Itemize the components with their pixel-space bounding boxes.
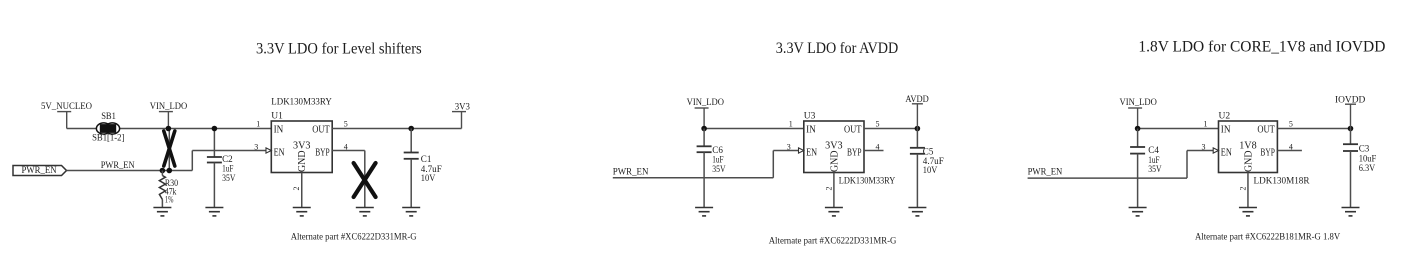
svg-text:SB1: SB1: [101, 112, 116, 122]
svg-text:IN: IN: [806, 124, 816, 135]
svg-text:GND: GND: [297, 150, 308, 172]
svg-text:C5: C5: [923, 147, 934, 157]
svg-text:C2: C2: [222, 154, 233, 164]
svg-text:3V3: 3V3: [825, 139, 843, 151]
svg-text:1.8V LDO for CORE_1V8 and IOVD: 1.8V LDO for CORE_1V8 and IOVDD: [1138, 39, 1385, 56]
svg-text:3: 3: [254, 142, 258, 151]
svg-text:C6: C6: [712, 145, 723, 155]
svg-text:VIN_LDO: VIN_LDO: [687, 97, 724, 108]
svg-text:EN: EN: [274, 148, 285, 159]
svg-text:1: 1: [256, 120, 260, 129]
svg-text:PWR_EN: PWR_EN: [613, 167, 649, 178]
svg-text:35V: 35V: [712, 164, 726, 174]
svg-text:2: 2: [1238, 187, 1247, 191]
svg-text:GND: GND: [829, 150, 840, 172]
svg-text:1: 1: [789, 120, 793, 129]
svg-text:IN: IN: [274, 124, 284, 135]
svg-text:OUT: OUT: [844, 124, 862, 135]
svg-text:OUT: OUT: [1257, 124, 1275, 135]
svg-text:C3: C3: [1359, 144, 1370, 154]
svg-text:BYP: BYP: [847, 147, 862, 158]
svg-text:1V8: 1V8: [1239, 139, 1257, 151]
svg-text:SB1[1-2]: SB1[1-2]: [92, 134, 124, 144]
svg-text:5: 5: [1289, 120, 1293, 129]
svg-text:EN: EN: [806, 148, 817, 159]
svg-text:PWR_EN: PWR_EN: [22, 165, 57, 176]
svg-text:6.3V: 6.3V: [1359, 163, 1376, 173]
svg-text:1%: 1%: [165, 194, 174, 204]
svg-text:C4: C4: [1148, 145, 1159, 155]
svg-text:3.3V LDO for Level shifters: 3.3V LDO for Level shifters: [256, 41, 422, 58]
svg-text:LDK130M33RY: LDK130M33RY: [271, 98, 332, 108]
svg-text:OUT: OUT: [312, 124, 330, 135]
svg-text:1uF: 1uF: [712, 155, 723, 165]
svg-text:BYP: BYP: [1260, 147, 1275, 158]
svg-text:2: 2: [824, 187, 833, 191]
svg-text:U3: U3: [804, 112, 816, 122]
svg-text:U2: U2: [1219, 112, 1231, 122]
svg-text:VIN_LDO: VIN_LDO: [150, 101, 187, 112]
svg-text:BYP: BYP: [315, 147, 330, 158]
svg-text:5V_NUCLEO: 5V_NUCLEO: [41, 101, 92, 112]
svg-text:5: 5: [876, 120, 880, 129]
svg-text:2: 2: [292, 187, 301, 191]
svg-text:Alternate part #XC6222B181MR-G: Alternate part #XC6222B181MR-G 1.8V: [1195, 231, 1341, 241]
svg-text:3: 3: [787, 142, 791, 151]
svg-text:LDK130M33RY: LDK130M33RY: [839, 176, 896, 186]
svg-text:VIN_LDO: VIN_LDO: [1120, 97, 1157, 108]
svg-text:1: 1: [1204, 120, 1208, 129]
svg-text:Alternate part #XC6222D331MR-G: Alternate part #XC6222D331MR-G: [769, 236, 897, 246]
svg-text:5: 5: [344, 120, 348, 129]
svg-text:1uF: 1uF: [222, 164, 233, 174]
svg-text:C1: C1: [421, 154, 432, 164]
svg-text:35V: 35V: [1148, 164, 1162, 174]
svg-text:3.3V LDO for AVDD: 3.3V LDO for AVDD: [776, 40, 899, 57]
svg-text:PWR_EN: PWR_EN: [101, 160, 135, 171]
svg-text:35V: 35V: [222, 173, 236, 183]
svg-text:10V: 10V: [923, 165, 938, 175]
svg-text:3V3: 3V3: [293, 139, 311, 151]
svg-text:Alternate part #XC6222D331MR-G: Alternate part #XC6222D331MR-G: [291, 231, 417, 241]
svg-text:U1: U1: [271, 112, 283, 122]
svg-text:IN: IN: [1221, 124, 1231, 135]
svg-text:GND: GND: [1243, 150, 1254, 172]
svg-text:3: 3: [1202, 142, 1206, 151]
svg-text:LDK130M18R: LDK130M18R: [1254, 176, 1311, 186]
svg-text:PWR_EN: PWR_EN: [1028, 167, 1063, 178]
svg-text:EN: EN: [1221, 148, 1232, 159]
svg-text:10V: 10V: [421, 173, 436, 183]
svg-text:10uF: 10uF: [1359, 153, 1377, 163]
